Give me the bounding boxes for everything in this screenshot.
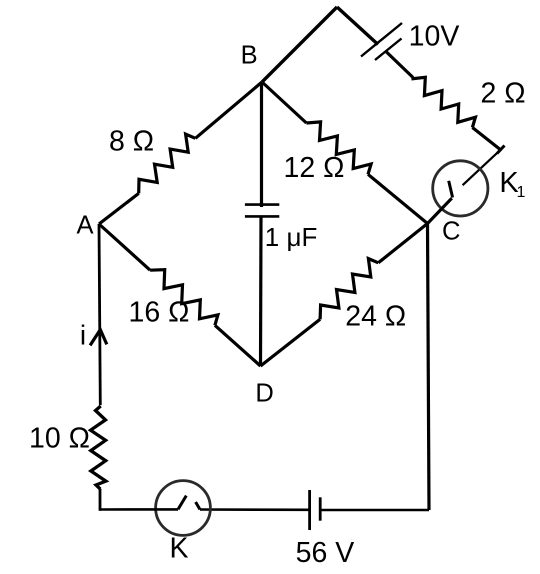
switch K blade (178, 496, 186, 510)
resistor R 10ohm (91, 406, 106, 489)
wire A to 8-ohm (99, 193, 139, 224)
resistor R 12ohm (306, 122, 371, 174)
svg-text:8 Ω: 8 Ω (109, 126, 154, 158)
capacitor C1 plate bottom (245, 215, 279, 218)
resistor R 8ohm (139, 134, 196, 193)
svg-text:16 Ω: 16 Ω (129, 296, 190, 328)
svg-text:i: i (80, 320, 86, 351)
resistor R 2ohm (411, 77, 475, 127)
resistor R 24ohm (320, 259, 378, 320)
switch K contact hook (196, 502, 200, 510)
svg-text:2 Ω: 2 Ω (480, 77, 525, 109)
wire bottom left corner up to 10-ohm (99, 489, 102, 511)
wire B to capacitor (260, 82, 263, 207)
svg-text:A: A (76, 212, 93, 240)
switch K1 circle (433, 161, 488, 216)
svg-text:1 μF: 1 μF (265, 222, 318, 252)
switch K1 blade (463, 150, 501, 185)
svg-text:B: B (241, 41, 258, 69)
resistor R 16ohm (150, 270, 218, 326)
wire C down right side (428, 224, 430, 511)
svg-text:K: K (169, 533, 188, 565)
wire 8-ohm to B (195, 82, 262, 138)
wire switch K to bottom left corner (100, 508, 178, 511)
wire battery to 2-ohm (387, 52, 414, 78)
wire peak to battery 10V (337, 7, 378, 45)
wire 24-ohm to C (378, 224, 427, 263)
wire bottom right to battery 56V (320, 509, 429, 512)
battery 10V long plate (361, 23, 402, 57)
svg-text:24 Ω: 24 Ω (345, 300, 406, 332)
battery 56V short plate (319, 497, 322, 520)
battery 10V short plate (375, 39, 402, 61)
svg-text:1: 1 (517, 184, 526, 201)
svg-text:D: D (255, 379, 273, 407)
current arrow i (90, 330, 107, 346)
wire 16-ohm to D (215, 325, 261, 366)
svg-text:C: C (442, 218, 460, 246)
switch K circle (156, 481, 211, 536)
wire 2-ohm to switch terminal (472, 128, 500, 150)
battery 56V long plate (308, 490, 311, 530)
wire D to 24-ohm (261, 319, 321, 366)
wire capacitor to D (259, 216, 263, 366)
wire battery 56V to switch K (200, 508, 310, 511)
wire 10-ohm up to A (99, 224, 100, 405)
wire B to 12-ohm (262, 82, 306, 123)
svg-text:10 Ω: 10 Ω (29, 422, 90, 454)
switch K1 terminal tick (497, 146, 505, 154)
svg-text:10V: 10V (409, 21, 460, 53)
wire B to top peak (262, 7, 337, 82)
wire A to 16-ohm (99, 224, 150, 270)
svg-text:12 Ω: 12 Ω (284, 152, 345, 184)
capacitor C1 plate top (245, 203, 279, 206)
svg-text:56 V: 56 V (296, 537, 355, 569)
switch K1 contact (449, 181, 453, 198)
wire 12-ohm to C (368, 174, 428, 223)
wire C to switch K1 (428, 198, 452, 223)
